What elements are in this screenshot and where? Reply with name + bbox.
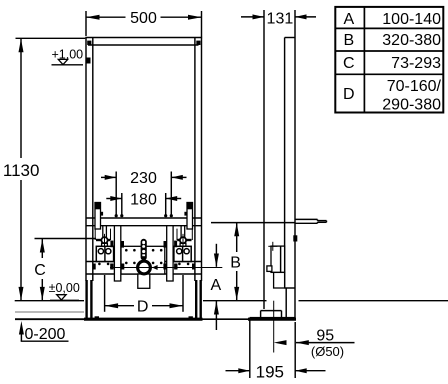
outlet centerline	[110, 267, 222, 269]
rail top cap	[285, 37, 295, 39]
svg-text:230: 230	[130, 170, 157, 187]
svg-text:C: C	[343, 55, 355, 72]
LEVEL ±0,00	[49, 281, 80, 301]
crossbar bolt dots	[115, 214, 118, 217]
svg-text:180: 180	[130, 191, 157, 208]
DIMENSION 131	[241, 10, 316, 27]
FFL line mid segment	[203, 300, 267, 302]
frame top inner line	[88, 44, 199, 46]
side foot plate	[250, 317, 296, 320]
svg-text:(Ø50): (Ø50)	[311, 344, 344, 359]
DIMENSION B	[211, 223, 295, 301]
rail left edge	[284, 38, 286, 289]
left bracket adjuster	[96, 226, 110, 247]
svg-text:D: D	[343, 86, 355, 103]
right leg bold	[195, 280, 197, 319]
svg-text:320-380: 320-380	[382, 32, 441, 49]
upper clamp nubs	[110, 241, 113, 248]
left leg bold	[85, 280, 87, 319]
svg-text:±0,00: ±0,00	[49, 281, 80, 295]
left rail inner	[92, 38, 94, 282]
raw floor thin line	[15, 311, 84, 313]
front face line	[263, 10, 265, 309]
svg-text:B: B	[343, 32, 354, 49]
drain circle	[138, 261, 151, 274]
plate rivet dots	[125, 249, 163, 264]
svg-text:500: 500	[130, 10, 157, 27]
svg-text:D: D	[137, 299, 149, 316]
DIMENSION 0-200	[19, 321, 69, 343]
left bracket lower box	[96, 246, 113, 265]
outlet pipe below	[138, 274, 150, 288]
left bracket upright	[95, 202, 103, 229]
FFL line left segment	[15, 300, 84, 302]
DIMENSION D	[105, 275, 183, 316]
right bracket lower box	[174, 246, 191, 265]
foot step	[261, 310, 282, 312]
left rail outer	[85, 38, 87, 282]
svg-text:A: A	[210, 277, 221, 294]
right rail inner	[194, 38, 196, 282]
right bracket adjuster	[177, 226, 191, 247]
bold floor line	[15, 318, 84, 320]
side bracket	[267, 242, 285, 288]
tiny arrow at circle	[152, 265, 158, 270]
svg-text:73-293: 73-293	[391, 55, 441, 72]
svg-text:A: A	[343, 11, 354, 28]
meterriss mark on left rail	[86, 58, 91, 64]
svg-text:95: 95	[316, 328, 334, 345]
svg-text:70-160/: 70-160/	[387, 78, 442, 95]
DIMENSION 180	[106, 191, 181, 217]
corner bolt left	[87, 41, 91, 45]
left strut	[114, 226, 120, 281]
TABLE	[335, 7, 443, 113]
DIMENSION 195	[226, 321, 326, 382]
DIMENSION C extension line	[35, 238, 97, 240]
DIMENSION 1130	[3, 38, 85, 300]
wall anchor tick	[293, 235, 297, 241]
FFL line right segment	[299, 300, 448, 302]
right foot tab	[189, 316, 193, 319]
LEVEL +1,00	[51, 47, 83, 65]
rail right edge / wall line	[294, 10, 296, 318]
lower crossbar	[86, 261, 202, 263]
clamp blocks	[93, 264, 96, 270]
center fixing capsule	[141, 239, 147, 261]
crossbar side profile	[295, 218, 318, 220]
DIMENSION 95 (Ø50)	[274, 328, 355, 359]
DIMENSION A	[210, 244, 221, 330]
side leg	[285, 288, 287, 317]
upper crossbar	[86, 217, 202, 219]
DIMENSION 230	[101, 170, 187, 217]
svg-text:1130: 1130	[3, 161, 40, 180]
left foot tab	[95, 316, 99, 319]
mounting plate	[121, 246, 165, 274]
svg-text:131: 131	[267, 10, 294, 27]
svg-text:C: C	[34, 262, 46, 279]
frame top edge	[85, 37, 202, 39]
corner bolt right	[196, 41, 200, 45]
right rail outer	[201, 38, 203, 282]
svg-text:100-140: 100-140	[382, 11, 441, 28]
svg-text:B: B	[230, 254, 241, 271]
pipe centerline extension	[273, 301, 275, 353]
svg-text:195: 195	[256, 362, 284, 381]
DIMENSION C	[34, 239, 46, 300]
svg-text:290-380: 290-380	[382, 96, 441, 113]
right bracket upright	[184, 202, 192, 229]
DIMENSION 500	[86, 10, 202, 37]
bracket plate edges	[94, 229, 96, 240]
right strut	[167, 226, 173, 281]
